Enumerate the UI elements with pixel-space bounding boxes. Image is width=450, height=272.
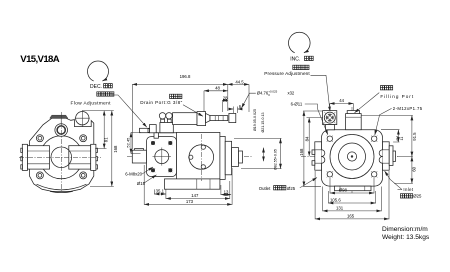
right port flange plate [91,144,96,170]
dimension 168 right view [303,111,323,186]
body top-left step line [156,132,176,134]
svg-text:Filling Port: Filling Port [380,94,414,99]
svg-text:Ø4.76: Ø4.76 [257,90,269,95]
svg-text:Weight: 13.5kgs: Weight: 13.5kgs [382,234,430,241]
left view dim ext top [82,111,114,187]
dimension 35.1 [154,189,166,199]
svg-text:Flow Adjustment: Flow Adjustment [71,100,112,105]
flow adjustment rotation arc symbol [88,61,109,81]
left view centerlines [19,112,101,192]
body base block [165,179,220,189]
svg-text:44: 44 [339,98,344,103]
flow adj tabs [148,129,150,133]
dimension 60 [394,182,413,184]
dimension 44.5 [248,84,250,112]
left view bottom dip [50,191,73,192]
bottom foot [335,186,372,191]
pressure boss neck [326,125,335,130]
svg-text:Ø98: Ø98 [339,188,348,193]
left view waist circle [40,136,83,179]
shaft dia dim arrows [263,148,265,162]
dimension 168 left view [111,111,113,187]
rear port tube [232,148,239,167]
left view bolt circles [36,135,86,179]
mounting flange plate [147,137,177,177]
svg-text:Pressure Adjustment: Pressure Adjustment [264,71,310,76]
svg-text:Inlet: Inlet [403,187,414,192]
drain port circles [159,113,165,119]
left view top tab (dark) [50,115,68,118]
compensator nut [229,113,236,122]
flange bolt holes [151,141,173,172]
pressure adjustment rotation arc symbol [289,32,311,53]
svg-text:131: 131 [336,206,344,211]
dimension 91.5 [361,116,413,157]
left view flow screw circles [55,124,68,137]
drain collars [161,119,165,122]
dimension 196.8 [132,84,228,149]
svg-text:Ø21.15-0.13: Ø21.15-0.13 [261,113,265,133]
svg-text:Dimension:m/m: Dimension:m/m [382,226,428,233]
label 泄油口 [170,94,174,98]
svg-text:48: 48 [215,85,220,90]
compensator housing [173,113,198,125]
shaft key [135,149,144,151]
dimension 147 [229,181,231,199]
left view center circle [51,147,72,168]
svg-text:165: 165 [347,214,355,219]
dimension Ø98 [330,178,374,193]
svg-text:44.5: 44.5 [235,79,244,84]
dimension 48 [203,91,205,112]
pump body [177,132,220,179]
dimension 105.6 [328,191,375,203]
rear circle [189,145,214,170]
step above flange [154,133,158,138]
svg-text:168: 168 [113,145,118,153]
svg-text:Drain Port:G 3/8": Drain Port:G 3/8" [140,100,182,105]
svg-text:Ø25: Ø25 [287,186,296,191]
svg-text:35.1: 35.1 [156,189,165,194]
right port (inlet) [383,142,390,170]
drain leader [183,105,203,117]
svg-text:105.6: 105.6 [330,198,341,203]
left port tabs [21,148,23,152]
left port block [28,146,50,169]
pressure adjustment leader [311,75,331,111]
svg-text:6-Ø11: 6-Ø11 [291,101,303,106]
svg-text:52.45: 52.45 [126,137,131,148]
svg-text:84: 84 [304,136,309,141]
dimension 11+0.3 [381,130,399,142]
svg-text:+0.3: +0.3 [395,135,399,141]
dimension 173 [144,165,232,205]
big circles [330,135,374,179]
dimension 44 [330,104,354,112]
svg-text:173: 173 [186,199,194,204]
svg-text:x32: x32 [288,91,295,96]
svg-text:2-M12xP1.75: 2-M12xP1.75 [393,106,423,111]
flow adj block left [150,125,157,133]
compensator rod [210,116,228,121]
svg-text:147: 147 [191,193,199,198]
svg-text:Outlet: Outlet [259,186,271,191]
left view valve cap circle [76,112,89,125]
dimension 165 [315,171,389,219]
drain block [160,123,173,133]
svg-text:28: 28 [223,95,228,100]
dimension 13 [220,185,222,195]
left view housing outline [30,118,94,191]
svg-text:Ø19.05-0.025: Ø19.05-0.025 [253,109,257,131]
svg-text:196.8: 196.8 [180,74,191,79]
filling boss [346,114,362,130]
label Inlet 进油口Ø25 [398,189,403,191]
dimension 52.45 [131,132,141,153]
compensator taper [206,113,210,122]
dimension Ø82.55 [234,138,282,168]
svg-text:11: 11 [400,137,404,141]
svg-text:Ø82.55+0.05: Ø82.55+0.05 [273,149,277,170]
svg-text:6-M8x20: 6-M8x20 [125,172,142,177]
label 注油口 Filling Port [380,86,384,90]
dimension 28 [221,100,223,112]
svg-text:81: 81 [104,137,109,142]
dimension 81 [103,111,105,149]
svg-text:91.5: 91.5 [412,132,417,141]
flow adjustment leader [113,95,147,127]
shaft [132,150,146,163]
left port flange plate [22,144,27,170]
svg-text:DEC.: DEC. [90,84,102,90]
dimension 84 right view [307,117,323,119]
right view centerlines [301,107,398,194]
right port block [69,146,91,169]
svg-text:168: 168 [299,148,304,156]
flow adj rod [140,128,150,132]
left view bottom inner curve [37,184,87,190]
main centerline [127,156,252,158]
svg-text:V15,V18A: V15,V18A [20,54,59,65]
pressure screw knob [324,112,335,123]
corner bolts [327,136,378,178]
right view body [322,130,383,186]
svg-text:INC.: INC. [290,56,300,62]
flange pilot circle [155,150,169,164]
svg-text:60: 60 [411,166,416,171]
svg-text:13: 13 [224,189,229,194]
label 流量调整 [97,92,101,96]
left port (outlet) [315,142,322,170]
svg-text:Ø25: Ø25 [413,194,422,199]
dimension 6 [233,107,237,114]
pressure screw boss [323,111,337,125]
label 压力调整 [293,65,297,69]
rear cover [220,136,225,179]
dimension 131 [323,187,382,212]
right port tabs [96,148,98,152]
left view flow screw stem [60,115,62,123]
